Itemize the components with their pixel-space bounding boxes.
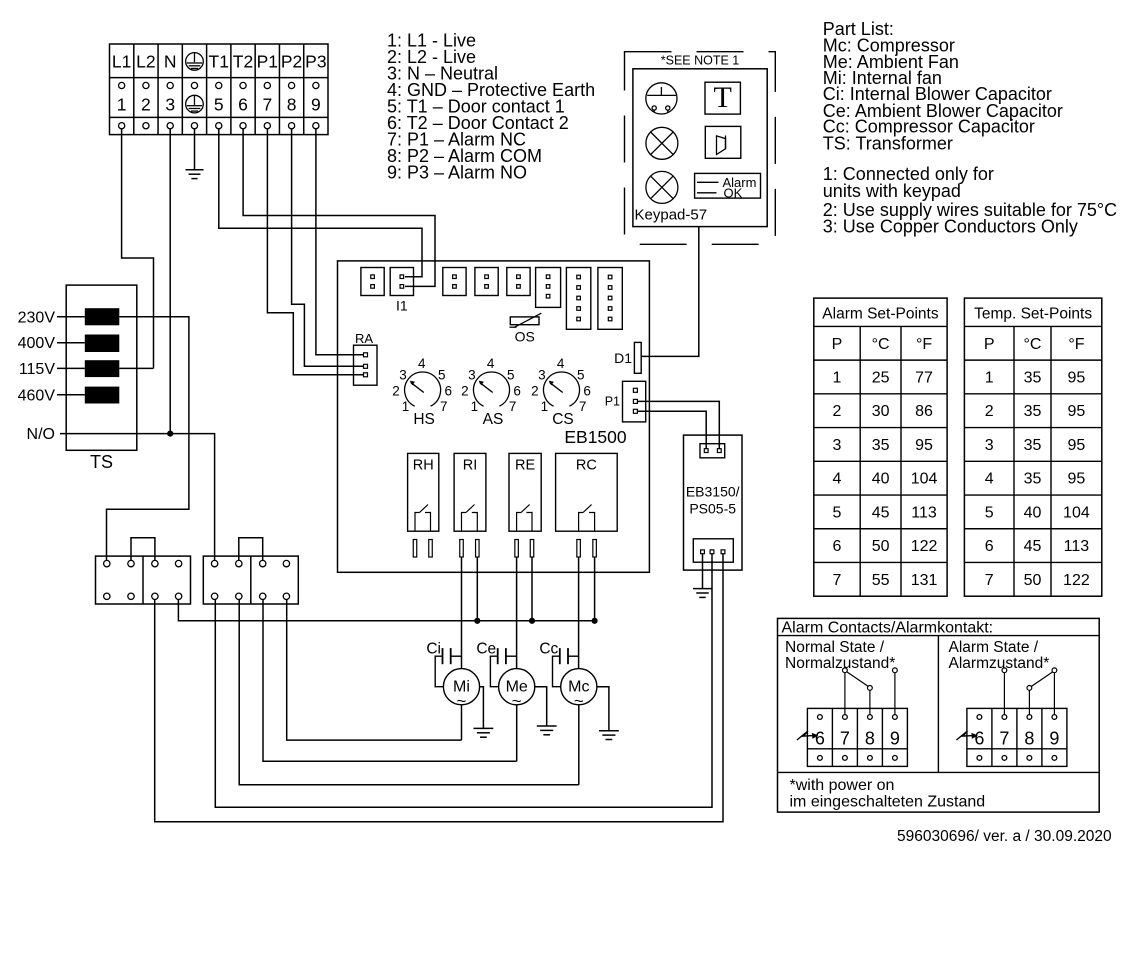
wire 400V xyxy=(57,342,85,344)
svg-text:35: 35 xyxy=(1024,437,1042,454)
svg-text:1: 1 xyxy=(985,369,994,386)
svg-text:2: 2 xyxy=(141,95,151,115)
wire 230V to block K1 xyxy=(57,317,189,561)
svg-text:104: 104 xyxy=(911,471,938,488)
wire RC to Mc xyxy=(578,557,580,669)
relay RC xyxy=(556,453,618,557)
wire RI to Mi xyxy=(461,557,463,669)
door key icon xyxy=(705,126,741,158)
contacts above (alarm state) xyxy=(1002,668,1057,715)
relay RE xyxy=(509,453,541,557)
svg-text:4: 4 xyxy=(833,471,842,488)
connector J5 (2-pin) xyxy=(475,268,498,296)
svg-text:Normalzustand*: Normalzustand* xyxy=(785,655,895,672)
svg-text:6: 6 xyxy=(833,538,842,555)
connector J7 (3-pin) xyxy=(536,268,561,308)
wire T2 to I1 pin2 xyxy=(243,129,435,287)
svg-text:RI: RI xyxy=(463,458,478,474)
wire T1 to I1 pin1 xyxy=(219,129,422,277)
svg-text:RA: RA xyxy=(355,331,373,346)
bridge on K2 xyxy=(239,538,263,561)
svg-text:5: 5 xyxy=(577,368,585,383)
legend: terminal descriptions xyxy=(387,31,595,183)
connector P1 xyxy=(605,381,646,422)
svg-text:122: 122 xyxy=(1063,572,1090,589)
svg-text:Normal State /: Normal State / xyxy=(785,639,885,656)
connector I1 (2-pin) xyxy=(390,268,413,314)
svg-text:I1: I1 xyxy=(396,298,408,314)
svg-text:Alarmzustand*: Alarmzustand* xyxy=(949,655,1050,672)
rotary switch CS xyxy=(531,356,591,428)
rotary switch HS xyxy=(392,356,452,428)
svg-text:T: T xyxy=(714,81,732,114)
wire P1 pin3 to EB3150 xyxy=(637,411,706,448)
rotary switch AS xyxy=(461,356,521,428)
svg-text:D1: D1 xyxy=(614,350,632,366)
svg-text:115V: 115V xyxy=(19,361,56,378)
svg-text:30: 30 xyxy=(872,403,890,420)
connector J8 (5-pin) xyxy=(566,268,590,330)
EB3150 output connector xyxy=(693,539,733,562)
svg-text:Cc: Cc xyxy=(539,641,558,658)
wire Mc return xyxy=(578,705,580,785)
wire 115V xyxy=(57,367,154,369)
svg-text:45: 45 xyxy=(1024,538,1042,555)
svg-text:35: 35 xyxy=(872,437,890,454)
wire P1 to RA pin3 xyxy=(267,129,363,375)
wire P2 to RA pin2 xyxy=(292,129,363,367)
svg-text:230V: 230V xyxy=(18,309,56,326)
svg-text:L2: L2 xyxy=(136,52,155,72)
lamp H1 xyxy=(646,127,678,159)
wire EB3150 out2 to K2 xyxy=(215,554,712,808)
svg-text:95: 95 xyxy=(915,437,933,454)
svg-text:400V: 400V xyxy=(18,335,56,352)
svg-text:122: 122 xyxy=(911,538,938,555)
svg-text:9: 9 xyxy=(311,95,321,115)
junction RC bus xyxy=(592,618,598,624)
capacitor Cc xyxy=(539,641,578,687)
bridge on K1 xyxy=(131,538,155,561)
wire RC return to bus xyxy=(594,557,596,621)
svg-text:°F: °F xyxy=(1068,336,1084,353)
svg-text:im eingeschalteten Zustand: im eingeschalteten Zustand xyxy=(790,794,986,811)
svg-text:*SEE NOTE 1: *SEE NOTE 1 xyxy=(661,54,740,68)
wire RE to Me xyxy=(516,557,518,669)
svg-text:6: 6 xyxy=(974,729,984,749)
wire Me return xyxy=(516,705,518,762)
svg-text:P: P xyxy=(984,336,995,353)
svg-text:596030696/ ver. a / 30.09.2020: 596030696/ ver. a / 30.09.2020 xyxy=(897,828,1112,845)
junction RI bus xyxy=(474,618,480,624)
svg-text:45: 45 xyxy=(872,504,890,521)
svg-text:3: 3 xyxy=(985,437,994,454)
svg-text:86: 86 xyxy=(915,403,933,420)
junction N on N/O line xyxy=(167,431,173,437)
svg-text:35: 35 xyxy=(1024,369,1042,386)
svg-text:113: 113 xyxy=(911,504,937,521)
svg-text:T1: T1 xyxy=(209,52,229,72)
surge arrow (alarm state) xyxy=(956,731,973,740)
motor Mc xyxy=(561,669,597,711)
connector J2 (2-pin) xyxy=(361,268,384,296)
svg-text:55: 55 xyxy=(872,572,890,589)
svg-text:Alarm Contacts/Alarmkontakt:: Alarm Contacts/Alarmkontakt: xyxy=(782,619,994,636)
svg-text:95: 95 xyxy=(1068,403,1086,420)
svg-text:L1: L1 xyxy=(112,52,131,72)
svg-text:OK: OK xyxy=(724,185,743,200)
terminal block X1 (L1 L2 N PE T1 T2 P1 P2 P3) xyxy=(110,44,329,135)
neutral bus from K1 to relays xyxy=(178,600,594,621)
svg-text:2: 2 xyxy=(392,384,400,399)
capacitor Ce xyxy=(476,641,516,687)
svg-text:7: 7 xyxy=(440,399,448,414)
svg-text:RH: RH xyxy=(413,458,434,474)
svg-text:2: 2 xyxy=(531,384,539,399)
svg-text:3: 3 xyxy=(399,368,407,383)
contact block alarm state xyxy=(967,708,1067,766)
svg-text:Keypad-57: Keypad-57 xyxy=(635,207,708,224)
wire K2-4 to Mi return xyxy=(287,600,462,741)
svg-text:°C: °C xyxy=(1024,336,1042,353)
svg-text:7: 7 xyxy=(833,572,842,589)
TS winding 115V xyxy=(85,360,120,377)
thermal cutout OS xyxy=(510,313,542,344)
motor Mi xyxy=(443,669,479,711)
relay RH xyxy=(408,453,439,557)
svg-text:Ce: Ce xyxy=(476,641,496,658)
svg-text:77: 77 xyxy=(915,369,933,386)
svg-text:RC: RC xyxy=(576,458,597,474)
svg-text:7: 7 xyxy=(840,729,850,749)
svg-text:1: 1 xyxy=(541,399,549,414)
table Alarm Set-Points xyxy=(814,298,947,596)
svg-text:1: 1 xyxy=(471,399,479,414)
svg-text:7: 7 xyxy=(262,95,272,115)
svg-text:°F: °F xyxy=(916,336,932,353)
svg-text:P2: P2 xyxy=(281,52,302,72)
svg-text:RE: RE xyxy=(515,458,535,474)
svg-text:1: 1 xyxy=(402,399,410,414)
power supply EB3150/PS05-5 box xyxy=(684,435,743,570)
svg-text:40: 40 xyxy=(872,471,890,488)
svg-text:N: N xyxy=(164,52,177,72)
svg-text:131: 131 xyxy=(911,572,938,589)
svg-text:8: 8 xyxy=(287,95,297,115)
controller board EB1500 outline xyxy=(338,261,650,572)
EB3150 ground xyxy=(693,554,712,598)
wire K2-2 to Mc return xyxy=(239,600,579,785)
lamp H2 xyxy=(646,171,678,203)
svg-text:P1: P1 xyxy=(257,52,278,72)
svg-text:OS: OS xyxy=(515,329,535,345)
wire K2-3 to Me return xyxy=(263,600,517,762)
TS winding 230V xyxy=(85,308,120,325)
wire 460V xyxy=(57,394,85,396)
svg-text:6: 6 xyxy=(815,729,825,749)
TS winding 400V xyxy=(85,335,120,353)
svg-text:Alarm State /: Alarm State / xyxy=(949,639,1039,656)
svg-text:113: 113 xyxy=(1064,538,1090,555)
svg-text:50: 50 xyxy=(1024,572,1042,589)
svg-text:7: 7 xyxy=(579,399,587,414)
ground Mi xyxy=(474,687,494,738)
wire RI return to bus xyxy=(476,557,478,621)
svg-text:8: 8 xyxy=(865,729,875,749)
ground Me xyxy=(535,687,557,735)
svg-text:4: 4 xyxy=(487,356,495,371)
svg-text:TS: Transformer: TS: Transformer xyxy=(823,134,953,154)
svg-text:1: 1 xyxy=(117,95,127,115)
alarm contacts box xyxy=(778,618,1100,812)
connector J4 (2-pin) xyxy=(443,268,466,296)
wire P1 pin2 to EB3150 xyxy=(637,401,719,448)
svg-text:6: 6 xyxy=(583,384,591,399)
alarm/OK indicator legend xyxy=(695,173,761,200)
wire L1 to 115V tap xyxy=(122,129,154,369)
relay RI xyxy=(454,453,486,557)
wire EB3150 out3 to K1 xyxy=(155,554,723,822)
svg-text:4: 4 xyxy=(557,356,565,371)
surge arrow (normal state) xyxy=(797,731,814,740)
contacts above (normal state) xyxy=(843,668,898,715)
svg-text:95: 95 xyxy=(1068,369,1086,386)
svg-text:25: 25 xyxy=(872,369,890,386)
svg-text:Alarm Set-Points: Alarm Set-Points xyxy=(822,306,939,323)
svg-text:9: 9 xyxy=(890,729,900,749)
svg-text:460V: 460V xyxy=(18,387,56,404)
svg-text:50: 50 xyxy=(872,538,890,555)
svg-text:2: 2 xyxy=(833,403,842,420)
svg-text:9: P3 – Alarm NO: 9: P3 – Alarm NO xyxy=(387,163,527,183)
svg-text:7: 7 xyxy=(509,399,517,414)
EB3150 input connector xyxy=(700,444,725,458)
svg-text:P3: P3 xyxy=(305,52,326,72)
svg-text:AS: AS xyxy=(483,411,504,428)
svg-text:5: 5 xyxy=(833,504,842,521)
svg-text:35: 35 xyxy=(1024,403,1042,420)
svg-text:95: 95 xyxy=(1068,471,1086,488)
table Temp. Set-Points xyxy=(964,298,1101,596)
svg-text:7: 7 xyxy=(999,729,1009,749)
svg-text:8: 8 xyxy=(1024,729,1034,749)
svg-text:4: 4 xyxy=(985,471,994,488)
ground at terminal PE xyxy=(186,129,204,179)
svg-text:2: 2 xyxy=(985,403,994,420)
svg-text:104: 104 xyxy=(1063,504,1090,521)
wire N/O to block K2 xyxy=(60,434,215,561)
svg-text:Ci: Ci xyxy=(426,641,441,658)
connector RA xyxy=(354,331,378,385)
contact block normal state xyxy=(807,708,907,766)
wire Mi return xyxy=(461,705,463,740)
transformer TS box xyxy=(66,285,137,472)
motor Me xyxy=(499,669,535,711)
svg-text:3: 3 xyxy=(468,368,476,383)
svg-text:6: 6 xyxy=(513,384,521,399)
svg-text:3: 3 xyxy=(833,437,842,454)
part list text xyxy=(823,19,1063,154)
keypad outer dashed box *SEE NOTE 1 xyxy=(625,52,776,245)
svg-text:6: 6 xyxy=(985,538,994,555)
svg-text:T2: T2 xyxy=(233,52,253,72)
junction RE bus xyxy=(529,618,535,624)
svg-text:P: P xyxy=(832,336,843,353)
connector J6 (2-pin) xyxy=(507,268,530,296)
svg-text:P1: P1 xyxy=(605,395,620,409)
svg-text:2: 2 xyxy=(461,384,469,399)
svg-text:HS: HS xyxy=(413,411,435,428)
svg-text:N/O: N/O xyxy=(27,426,55,443)
svg-text:EB3150/: EB3150/ xyxy=(686,484,740,500)
svg-text:6: 6 xyxy=(238,95,248,115)
svg-text:6: 6 xyxy=(444,384,452,399)
notes text xyxy=(823,164,1117,237)
svg-text:3: 3 xyxy=(165,95,175,115)
svg-text:EB1500: EB1500 xyxy=(564,427,627,447)
svg-text:TS: TS xyxy=(90,452,113,472)
svg-text:3: 3 xyxy=(538,368,546,383)
push button SB1 xyxy=(646,83,677,114)
svg-text:3: Use Copper Conductors Only: 3: Use Copper Conductors Only xyxy=(823,217,1078,237)
connector J9 (5-pin) xyxy=(598,268,622,330)
diode D1 xyxy=(614,342,641,373)
TS winding 460V xyxy=(85,387,120,404)
svg-text:5: 5 xyxy=(507,368,515,383)
svg-text:PS05-5: PS05-5 xyxy=(689,501,736,517)
wire RE return to bus xyxy=(531,557,533,621)
svg-text:5: 5 xyxy=(438,368,446,383)
svg-text:*with power on: *with power on xyxy=(790,777,895,794)
wire N to N/O line xyxy=(169,129,171,434)
capacitor Ci xyxy=(426,641,461,687)
wire keypad to D1 xyxy=(641,227,699,357)
wire P3 to RA pin1 xyxy=(316,129,363,355)
svg-text:95: 95 xyxy=(1068,437,1086,454)
svg-text:4: 4 xyxy=(418,356,426,371)
terminal block K1 xyxy=(96,556,191,604)
keypad inner box Keypad-57 xyxy=(633,69,767,227)
svg-text:CS: CS xyxy=(552,411,574,428)
terminal block K2 xyxy=(203,556,298,604)
display key T xyxy=(705,81,740,114)
svg-text:35: 35 xyxy=(1024,471,1042,488)
svg-text:5: 5 xyxy=(214,95,224,115)
svg-text:units with keypad: units with keypad xyxy=(823,181,961,201)
svg-text:1: 1 xyxy=(833,369,842,386)
svg-text:9: 9 xyxy=(1049,729,1059,749)
ground Mc xyxy=(597,687,619,740)
svg-text:5: 5 xyxy=(985,504,994,521)
svg-text:°C: °C xyxy=(872,336,890,353)
svg-text:40: 40 xyxy=(1024,504,1042,521)
svg-text:Temp. Set-Points: Temp. Set-Points xyxy=(974,306,1092,323)
svg-text:7: 7 xyxy=(985,572,994,589)
